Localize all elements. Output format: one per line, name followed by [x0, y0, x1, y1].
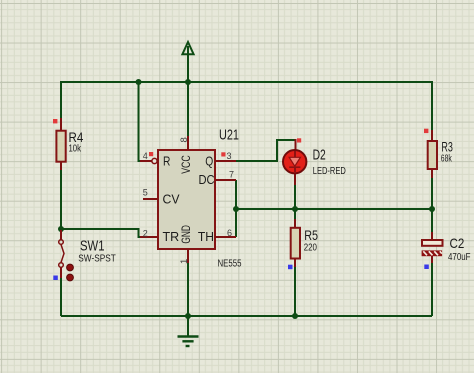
svg-text:TH: TH [198, 230, 214, 244]
wire: middle rail (pin7/6 to R5 and C2) [236, 208, 432, 210]
pin 7 stub (DC) [215, 179, 236, 181]
origin marker of C2 (blue) [424, 265, 429, 270]
wire: left rail upper segment [60, 81, 62, 119]
junction node: left rail / trigger / switch [58, 226, 64, 232]
capacitor C2 (electrolytic) [422, 232, 443, 263]
pin 1 stub (GND) [187, 249, 189, 263]
svg-text:U21: U21 [219, 127, 239, 144]
svg-text:VCC: VCC [181, 155, 193, 174]
svg-text:DC: DC [199, 173, 215, 187]
wire: trigger branch from left rail to pin 2 [61, 229, 141, 237]
svg-text:1: 1 [179, 259, 190, 264]
svg-text:LED-RED: LED-RED [313, 166, 346, 177]
svg-text:3: 3 [227, 151, 232, 161]
switch SW1 [59, 230, 64, 278]
svg-text:8: 8 [179, 137, 190, 142]
svg-text:5: 5 [143, 188, 148, 198]
ground [178, 316, 199, 346]
resistor R3 [428, 130, 437, 178]
origin marker of R3 [424, 129, 428, 133]
svg-text:R: R [163, 155, 170, 169]
switch SW1 actuator dot upper [67, 264, 74, 271]
wire: discharge/threshold vertical link [235, 180, 237, 237]
svg-text:SW-SPST: SW-SPST [78, 254, 116, 265]
svg-text:SW1: SW1 [80, 238, 105, 255]
pin 6 stub (TH) [215, 236, 236, 238]
origin marker of R5 (blue) [288, 265, 293, 270]
svg-text:68k: 68k [441, 153, 453, 164]
svg-text:Q: Q [205, 155, 213, 169]
svg-text:TR: TR [163, 230, 180, 244]
origin marker of SW1 (blue) [53, 276, 58, 281]
junction node: R5 / bottom rail [292, 313, 298, 319]
junction node: LED-R5 / middle rail [292, 206, 298, 212]
op-amp/timer IC U21 body [158, 150, 215, 249]
power symbol VCC arrow [182, 42, 193, 82]
wire: LED cathode down to middle rail [294, 184, 296, 209]
wire: bottom ground rail [61, 315, 432, 317]
origin marker near pin 3 [221, 152, 225, 156]
svg-text:7: 7 [229, 170, 234, 180]
wire: R5 top connection [294, 209, 296, 220]
wire: right rail middle segment (R3 to C2) [431, 177, 433, 233]
wire: top power rail [61, 81, 432, 83]
pin 2 stub (TR) [140, 236, 158, 238]
svg-text:D2: D2 [313, 147, 326, 164]
wire: output Q to LED anode [236, 140, 296, 161]
svg-text:10k: 10k [69, 144, 82, 155]
origin marker of D2 [297, 138, 301, 142]
junction node: ground / bottom rail [185, 313, 191, 319]
junction node: top rail / pin4 branch [136, 79, 142, 85]
svg-text:NE555: NE555 [218, 259, 242, 270]
pin 5 stub (CV) [143, 198, 158, 200]
svg-text:R4: R4 [69, 129, 84, 145]
origin marker of R4 [53, 119, 57, 123]
resistor R4 [56, 118, 65, 170]
svg-text:R3: R3 [441, 139, 453, 155]
wire: left rail lower segment (switch to bottom rail) [60, 277, 62, 316]
pin 3 stub (Q) [215, 160, 236, 162]
wire: VCC branch from top rail to pin 8 [187, 82, 189, 137]
switch SW1 actuator dot lower [67, 274, 74, 281]
wire: right rail upper segment [431, 81, 433, 131]
pin 4 stub with inversion bubble [140, 158, 157, 163]
svg-text:220: 220 [304, 243, 318, 254]
resistor R5 [291, 219, 300, 267]
svg-text:GND: GND [181, 225, 193, 244]
wire: left rail middle segment (R4 to switch junction) [60, 169, 62, 230]
LED D2 [283, 139, 306, 185]
wire: R5 bottom to bottom rail [294, 266, 296, 316]
svg-text:6: 6 [227, 228, 232, 238]
junction node: top rail / VCC branch [185, 79, 191, 85]
wire: pin 1 (GND) down to bottom rail [187, 262, 189, 316]
svg-text:CV: CV [163, 193, 181, 207]
svg-text:R5: R5 [304, 227, 318, 243]
pin 8 stub (VCC) [187, 136, 189, 150]
wire: reset branch from top rail down to pin 4 [139, 82, 142, 161]
svg-text:2: 2 [143, 228, 148, 238]
origin marker near pin 4 [149, 152, 153, 156]
wire: right rail lower segment (C2 to bottom rail) [431, 262, 433, 316]
svg-text:4: 4 [143, 151, 148, 161]
junction node: middle rail / right rail [429, 206, 435, 212]
junction node: discharge link / middle rail [233, 206, 239, 212]
svg-text:C2: C2 [450, 235, 465, 251]
svg-text:470uF: 470uF [448, 252, 471, 263]
